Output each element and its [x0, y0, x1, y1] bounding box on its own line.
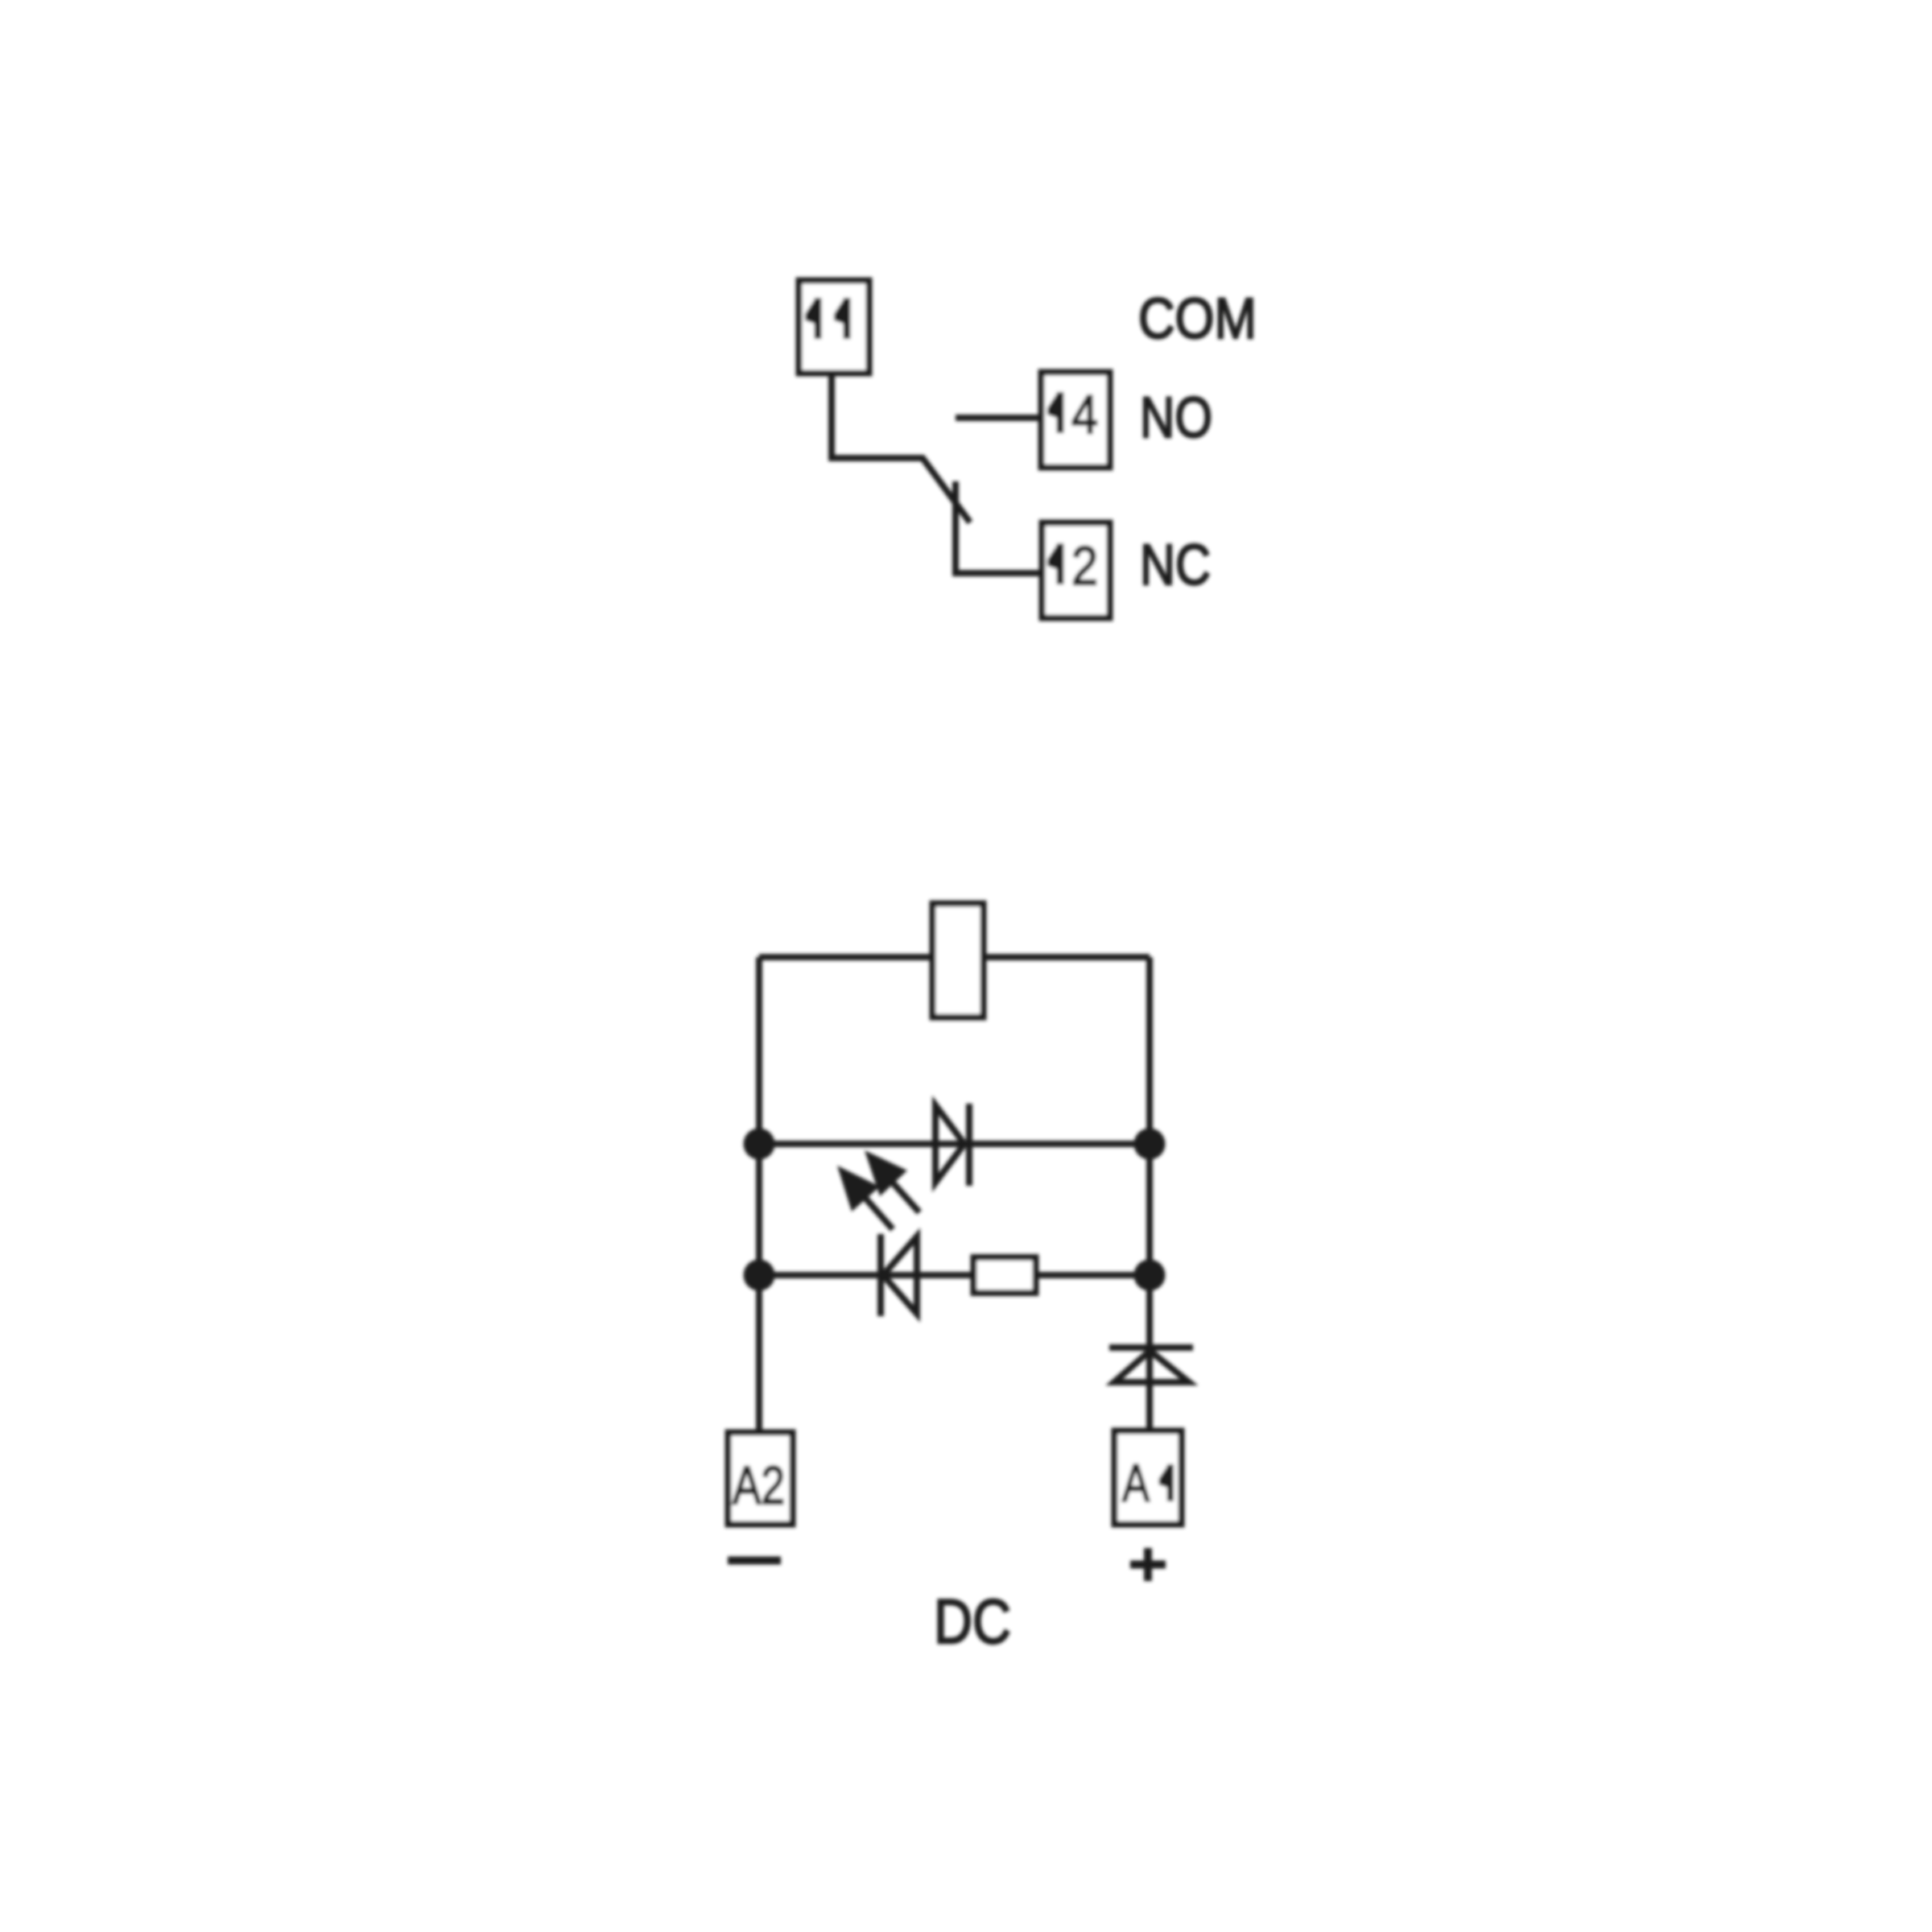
svg-text:2: 2: [1071, 535, 1098, 597]
svg-text:A: A: [1122, 1453, 1150, 1513]
svg-text:NC: NC: [1140, 534, 1211, 597]
svg-text:4: 4: [1071, 384, 1098, 445]
svg-text:COM: COM: [1138, 287, 1257, 351]
svg-text:A2: A2: [733, 1455, 785, 1516]
svg-text:NO: NO: [1140, 386, 1212, 450]
svg-text:DC: DC: [934, 1586, 1011, 1657]
